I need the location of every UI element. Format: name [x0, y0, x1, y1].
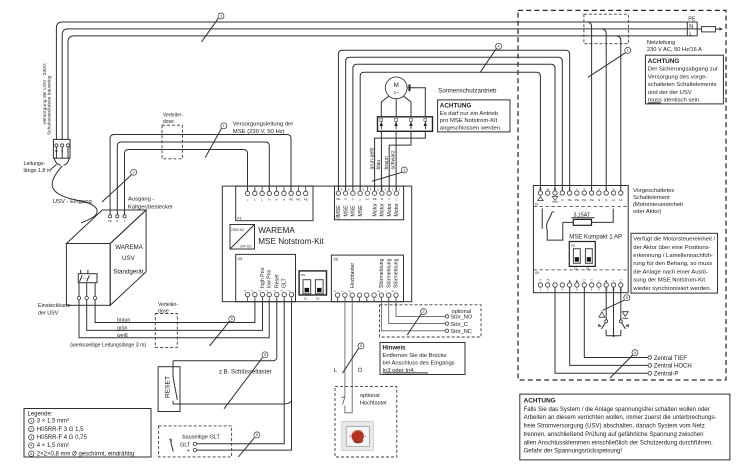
svg-text:1~: 1~ — [394, 90, 400, 95]
switch element box (MSE Kompakt 1 AP) — [533, 186, 628, 293]
wire L: Schuko supply bottom run — [68, 36, 697, 139]
svg-text:Störmeldung: Störmeldung — [386, 258, 392, 288]
svg-text:low Prio: low Prio — [267, 269, 273, 288]
svg-text:X5: X5 — [535, 271, 539, 275]
svg-text:Störmeldung: Störmeldung — [379, 258, 385, 288]
DIP switch S1 S2 in switch element — [569, 242, 595, 271]
svg-text:der Aktor über eine Positions-: der Aktor über eine Positions- — [633, 245, 710, 251]
svg-text:Hinweis: Hinweis — [383, 345, 407, 352]
manual override switch down — [619, 287, 628, 336]
svg-text:5: 5 — [264, 353, 266, 357]
terminal block X2 — [335, 186, 404, 220]
svg-text:N: N — [116, 220, 118, 223]
switch contact GLT — [170, 439, 174, 452]
MSE Notstrom-Kit main enclosure — [222, 186, 411, 302]
optional fault signal box — [380, 305, 482, 337]
svg-text:RESET: RESET — [164, 376, 171, 398]
callout 4 MSE control lead — [480, 43, 502, 72]
wire N: Schuko supply middle run — [62, 29, 698, 139]
svg-text:Zentral HOCH: Zentral HOCH — [654, 364, 692, 370]
svg-text:4: 4 — [498, 45, 500, 49]
svg-text:3 × 1,5 mm²: 3 × 1,5 mm² — [37, 419, 69, 425]
wire Zentral-P — [555, 287, 648, 373]
svg-text:+: + — [187, 449, 190, 455]
switch contact Reset — [173, 361, 177, 404]
wire gruen-gelb PE motor lead — [375, 131, 426, 191]
switch element top terminal row X1 — [538, 188, 623, 202]
switch element bottom terminal row X5 — [538, 279, 623, 292]
svg-text:bauseitige GLT: bauseitige GLT — [182, 435, 220, 441]
svg-text:Verteiler-: Verteiler- — [163, 112, 183, 118]
svg-text:MSE Notstrom-Kit: MSE Notstrom-Kit — [258, 237, 324, 246]
svg-text:N: N — [283, 197, 285, 201]
svg-text:N: N — [268, 197, 270, 201]
fuse 3,15AT — [563, 209, 613, 226]
svg-text:Motor: Motor — [394, 203, 400, 217]
svg-text:grün: grün — [117, 325, 127, 331]
svg-text:N: N — [381, 197, 383, 201]
svg-text:N: N — [598, 198, 600, 202]
svg-text:▲: ▲ — [568, 279, 572, 283]
svg-text:2×2×0,8 mm Ø geschirmt, eindrä: 2×2×0,8 mm Ø geschirmt, eindrähtig — [37, 451, 134, 457]
callout 5 reset cable — [224, 352, 268, 409]
fuse F1 mains — [702, 27, 716, 32]
label Vorgeschaltetes Schaltelement — [633, 188, 683, 215]
optional Hochtaster box — [335, 387, 397, 457]
wire GLT input — [197, 302, 284, 444]
wire braun motor lead — [389, 131, 411, 191]
callout 1 mains lead right — [588, 47, 631, 77]
svg-text:H05RR-F 4 G 0,75: H05RR-F 4 G 0,75 — [37, 435, 88, 441]
svg-text:S1: S1 — [304, 297, 308, 301]
wire: USV input cable curve — [52, 166, 97, 223]
svg-text:Leitungs-: Leitungs- — [24, 161, 46, 167]
svg-text:optional: optional — [360, 393, 380, 399]
svg-text:5: 5 — [30, 452, 32, 456]
svg-text:trennen, anschließend Prüfung: trennen, anschließend Prüfung auf gefähr… — [524, 432, 704, 438]
wire blau N motor lead — [380, 131, 382, 191]
svg-text:230V AC: 230V AC — [231, 228, 245, 232]
svg-text:3: 3 — [403, 168, 405, 172]
svg-text:ON: ON — [301, 273, 306, 277]
svg-text:Kaltgerätestecker: Kaltgerätestecker — [128, 205, 173, 211]
svg-text:Vorgeschaltetes: Vorgeschaltetes — [633, 188, 674, 194]
DIP switch S1 S2 in MSE box — [299, 271, 326, 301]
svg-text:Zentral TIEF: Zentral TIEF — [654, 356, 688, 362]
bauseitige GLT box — [159, 426, 232, 457]
svg-text:X1: X1 — [237, 216, 243, 221]
svg-text:2: 2 — [30, 427, 32, 431]
node Zentral TIEF — [648, 356, 652, 360]
svg-text:Ausgang -: Ausgang - — [128, 197, 154, 203]
svg-text:Ö: Ö — [358, 367, 363, 374]
wire branch L down to switch element — [616, 36, 621, 191]
wire motor to strip pin3 — [404, 96, 411, 117]
svg-text:L: L — [689, 32, 692, 38]
wire Hochtaster return — [345, 297, 352, 413]
separator X1 dashed — [533, 206, 628, 208]
warning box bottom: Achtung Spannungsfrei — [520, 394, 730, 460]
svg-text:N: N — [276, 197, 278, 201]
svg-text:Verteiler-: Verteiler- — [158, 302, 178, 308]
callout 1 MSE supply lead — [205, 123, 227, 158]
svg-text:Standgerät: Standgerät — [113, 269, 144, 276]
switch contact Hochtaster — [341, 397, 345, 405]
svg-text:PE: PE — [108, 220, 112, 223]
svg-text:Falls Sie das System / die Anl: Falls Sie das System / die Anlage spannu… — [524, 407, 710, 413]
svg-text:Entfernen Sie die Brücke: Entfernen Sie die Brücke — [383, 353, 447, 359]
wire branch N down to switch element — [601, 29, 606, 191]
svg-text:5: 5 — [231, 317, 233, 321]
USV cabinet 3D box WAREMA USV Standgeraet — [66, 210, 146, 305]
svg-text:5: 5 — [256, 433, 258, 437]
svg-text:230 V AC, 50 Hz/16 A: 230 V AC, 50 Hz/16 A — [647, 47, 702, 53]
wire PE: Schuko supply top run — [56, 22, 697, 139]
drive connection terminal strip — [378, 117, 433, 132]
relay card contacts inside USV — [78, 274, 97, 283]
svg-text:PE: PE — [336, 197, 340, 201]
svg-text:X6: X6 — [333, 257, 339, 262]
svg-text:dose: dose — [163, 119, 174, 125]
svg-text:N: N — [689, 24, 693, 30]
svg-text:Stör_NC: Stör_NC — [450, 329, 471, 335]
svg-text:weiß: weiß — [117, 333, 128, 339]
svg-text:WAREMA: WAREMA — [258, 226, 295, 235]
svg-text:Hochtaster: Hochtaster — [350, 263, 356, 288]
svg-text:Stör_C: Stör_C — [450, 322, 467, 328]
wire braun: USV card to X5 — [95, 300, 255, 323]
svg-text:blau: blau — [376, 160, 382, 170]
wire gruen: USV card to X5 — [87, 300, 263, 331]
warning box: only one drive — [438, 100, 510, 132]
capacitor on motor — [407, 87, 408, 89]
svg-text:rung für den Behang, so muss: rung für den Behang, so muss — [633, 261, 712, 267]
svg-text:In3: In3 — [280, 291, 283, 293]
svg-text:1: 1 — [223, 124, 225, 128]
svg-text:PE: PE — [575, 198, 579, 202]
svg-text:PE: PE — [688, 16, 696, 22]
wire mains feed through fuse — [697, 28, 719, 30]
svg-text:Versorgungsleitung der: Versorgungsleitung der — [233, 122, 294, 128]
svg-text:2: 2 — [133, 171, 135, 175]
svg-text:N: N — [561, 198, 563, 202]
wire motor to strip pin2 — [395, 99, 397, 117]
svg-text:1: 1 — [220, 14, 222, 18]
svg-text:ACHTUNG: ACHTUNG — [440, 102, 472, 109]
svg-text:Legende:: Legende: — [28, 412, 53, 418]
USV mains outlet terminals on top face — [109, 215, 112, 218]
wire Stoer_C from X6 — [389, 297, 446, 323]
svg-text:24V DC: 24V DC — [240, 245, 252, 249]
svg-text:PE: PE — [289, 197, 293, 201]
svg-text:GLT: GLT — [180, 442, 191, 448]
RESET key switch box — [158, 367, 180, 412]
svg-text:MSE: MSE — [336, 205, 342, 217]
callout 1 top supply cable — [202, 13, 225, 42]
svg-text:Netzleitung: Netzleitung — [647, 40, 675, 46]
callout 5 hochtaster cable — [343, 343, 365, 373]
svg-text:(Motorsteuereinheit: (Motorsteuereinheit — [633, 202, 683, 208]
svg-text:high Prio: high Prio — [260, 267, 266, 288]
svg-text:länge 1,8 m: länge 1,8 m — [24, 168, 52, 174]
wire MSE N to switch element — [346, 57, 563, 191]
wire Hochtaster L — [344, 297, 346, 397]
wire motor to strip pin1 — [381, 96, 388, 117]
terminal block X1 — [236, 186, 313, 221]
svg-text:braun: braun — [117, 318, 130, 324]
svg-text:braun: braun — [384, 156, 390, 169]
callout 5 override cable — [603, 295, 630, 311]
svg-text:Der Sicherungsabgang zur: Der Sicherungsabgang zur — [648, 67, 718, 73]
svg-text:PE: PE — [304, 197, 308, 201]
svg-text:grün-gelb: grün-gelb — [369, 147, 375, 169]
svg-text:allen Anschlussklemmen einschl: allen Anschlussklemmen einschließlich de… — [524, 440, 714, 446]
svg-text:Zentral-P: Zentral-P — [654, 372, 679, 378]
svg-text:ACHTUNG: ACHTUNG — [648, 58, 680, 65]
svg-text:pro MSE Notstrom-Kit: pro MSE Notstrom-Kit — [440, 118, 498, 124]
svg-text:PE: PE — [373, 197, 377, 201]
svg-text:Gefahr der Spannungsrückspeisu: Gefahr der Spannungsrückspeisung! — [524, 449, 623, 455]
svg-text:wieder synchronisiert werden.: wieder synchronisiert werden. — [632, 286, 711, 292]
symbol triangle down with bar — [622, 312, 628, 317]
svg-text:Sonnenschutzantrieb: Sonnenschutzantrieb — [438, 87, 497, 94]
svg-text:In3: In3 — [273, 291, 276, 293]
wire MSE up-cmd to switch element — [360, 72, 540, 191]
dashed enclosure: vorgeschaltetes Schaltelement section — [518, 10, 726, 380]
callout 5 glt cable — [238, 432, 260, 457]
svg-text:PE: PE — [582, 198, 586, 202]
svg-text:X5: X5 — [238, 256, 244, 261]
svg-text:In2: In2 — [265, 291, 268, 293]
terminal block X6 — [331, 255, 403, 302]
svg-text:MSE: MSE — [351, 205, 357, 217]
svg-text:sung der MSE Notstrom-Kit: sung der MSE Notstrom-Kit — [633, 278, 705, 284]
svg-text:Störmeldung: Störmeldung — [394, 258, 400, 288]
terminal block X5 — [236, 254, 296, 302]
svg-text:5: 5 — [634, 351, 636, 355]
svg-text:schwarz: schwarz — [391, 150, 397, 169]
node Zentral-P — [648, 372, 652, 376]
svg-text:z.B. Schlüsseltaster: z.B. Schlüsseltaster — [219, 370, 272, 376]
svg-text:In5: In5 — [348, 291, 351, 293]
wire Reset return to X5 — [173, 401, 292, 404]
svg-text:1: 1 — [30, 419, 32, 423]
wire Stoer_NC from X6 — [381, 297, 445, 331]
wire MSE PE to switch element — [338, 50, 569, 191]
callout 5 stoer cable — [407, 309, 426, 335]
symbol triangle up — [599, 312, 605, 318]
wire Zentral TIEF — [584, 287, 648, 357]
wire branch PE down to switch element — [587, 22, 592, 191]
svg-text:die Anlage nach einer Auslö-: die Anlage nach einer Auslö- — [633, 269, 708, 275]
junction box (Verteilerdose) top right dashed — [584, 14, 629, 44]
svg-text:PE: PE — [296, 197, 300, 201]
svg-text:MSE Kompakt 1 AP: MSE Kompakt 1 AP — [569, 234, 622, 240]
connector: Schuko plug X0 — [53, 139, 70, 158]
svg-text:MSE: MSE — [343, 205, 349, 217]
svg-text:X1: X1 — [535, 203, 539, 207]
cable gland bell under plug — [54, 158, 61, 165]
relay contact in switch element — [542, 209, 563, 241]
svg-text:MSE: MSE — [358, 205, 364, 217]
svg-text:Schukosteckdose bauseitig: Schukosteckdose bauseitig — [47, 75, 53, 135]
power supply symbol 230V AC / 24V DC — [230, 225, 255, 250]
svg-text:N: N — [345, 197, 347, 201]
svg-text:ON: ON — [571, 243, 575, 247]
svg-text:USV: USV — [122, 255, 136, 262]
svg-text:S2: S2 — [316, 297, 320, 301]
svg-text:L1: L1 — [619, 198, 623, 202]
svg-text:4 × 1,5 mm²: 4 × 1,5 mm² — [37, 443, 69, 449]
svg-text:4: 4 — [30, 444, 32, 448]
svg-text:5: 5 — [423, 310, 425, 314]
svg-text:ACHTUNG: ACHTUNG — [524, 398, 556, 405]
svg-text:und der der USV: und der der USV — [648, 90, 692, 96]
svg-text:erkennung / Lamellennachfüh-: erkennung / Lamellennachfüh- — [633, 253, 713, 259]
svg-text:Motor: Motor — [380, 203, 386, 217]
svg-text:▲: ▲ — [575, 279, 579, 283]
svg-text:In4: In4 — [288, 291, 291, 293]
wire GLT plus — [197, 302, 292, 450]
svg-text:Schaltelement: Schaltelement — [633, 195, 670, 201]
callout 5 zentral cable — [610, 350, 638, 378]
svg-text:MSE (230 V, 50 Hz): MSE (230 V, 50 Hz) — [233, 129, 285, 135]
svg-text:▲: ▲ — [604, 279, 608, 283]
svg-text:Arbeiten an diesem verrichten: Arbeiten an diesem verrichten wollen, im… — [524, 415, 717, 421]
wire Stoer_NO from X6 — [396, 297, 445, 316]
wire Zentral HOCH — [570, 287, 648, 365]
USV plug-in card terminals — [78, 283, 80, 297]
svg-text:Hochtaster: Hochtaster — [360, 401, 387, 407]
wire common bus of switches — [606, 287, 621, 336]
wire weiss: USV card to X5 — [79, 300, 269, 338]
push button photo — [342, 421, 374, 450]
svg-text:Stör_NO: Stör_NO — [450, 315, 472, 321]
wire capacitor to strip — [411, 88, 426, 117]
svg-text:1: 1 — [627, 49, 629, 53]
callout 5 USV card cable — [210, 316, 235, 346]
svg-text:L1: L1 — [612, 198, 616, 202]
manual override switch up — [599, 287, 608, 336]
note box: Verfuegt die Motorsteuereinheit — [631, 233, 718, 293]
svg-text:Reset: Reset — [274, 274, 280, 288]
svg-text:schalteten Schaltelements: schalteten Schaltelements — [648, 82, 717, 88]
svg-text:der USV: der USV — [38, 311, 59, 317]
svg-text:GLT: GLT — [282, 277, 288, 288]
svg-text:3: 3 — [30, 436, 32, 440]
wire Reset feed from X5 — [173, 302, 277, 361]
svg-text:USV - Eingang: USV - Eingang — [53, 199, 92, 205]
svg-text:In1: In1 — [259, 291, 262, 293]
node PE N L mains labels bracket — [686, 22, 688, 36]
separator X5 dashed — [533, 269, 628, 271]
svg-text:(werksseitige Leitungslänge 3: (werksseitige Leitungslänge 3 m) — [70, 343, 146, 349]
svg-text:n.c.: n.c. — [365, 197, 370, 201]
wire USV output N to MSE X1 — [117, 142, 269, 215]
callout 2 USV output lead — [102, 169, 137, 202]
svg-text:Verfügt die Motorsteuereinheit: Verfügt die Motorsteuereinheit / — [633, 237, 715, 243]
warning box top right: Sicherungsabgang — [645, 55, 723, 104]
svg-text:PE: PE — [590, 198, 594, 202]
note box Hinweis — [380, 343, 465, 375]
svg-text:M: M — [394, 82, 399, 89]
svg-text:freie Stromversorgung (USV) ab: freie Stromversorgung (USV) abschalten, … — [524, 424, 705, 430]
svg-text:WAREMA: WAREMA — [115, 244, 143, 251]
svg-text:PE: PE — [568, 198, 572, 202]
callout 3 motor lead — [372, 167, 407, 181]
motor M1 Sonnenschutzantrieb — [385, 77, 407, 99]
svg-text:N: N — [605, 198, 607, 202]
svg-text:5: 5 — [626, 296, 628, 300]
svg-text:angeschlossen werden.: angeschlossen werden. — [440, 125, 502, 131]
svg-text:5: 5 — [360, 344, 362, 348]
wire MSE down-cmd to switch element — [353, 64, 555, 191]
wire schwarz motor lead — [395, 131, 397, 191]
wire USV output L to MSE X1 — [125, 150, 248, 215]
svg-text:Motor: Motor — [387, 203, 393, 217]
wire USV output PE to MSE X1 — [110, 135, 291, 215]
svg-text:H05RR-F 3 G 1,5: H05RR-F 3 G 1,5 — [37, 427, 84, 433]
legend box — [24, 409, 151, 458]
svg-text:Einsteckkarte: Einsteckkarte — [38, 303, 70, 309]
svg-text:Versorgung des vorge-: Versorgung des vorge- — [648, 74, 708, 80]
svg-text:Motor: Motor — [372, 203, 378, 217]
svg-text:oder Aktor): oder Aktor) — [633, 209, 661, 215]
node Zentral HOCH — [648, 364, 652, 368]
svg-text:Es darf nur ein Antrieb: Es darf nur ein Antrieb — [440, 111, 499, 117]
svg-text:bei Anschluss des Eingangs: bei Anschluss des Eingangs — [383, 360, 455, 366]
